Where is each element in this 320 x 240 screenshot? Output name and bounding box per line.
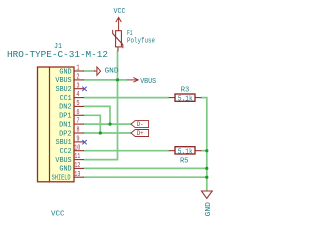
svg-text:11: 11	[74, 153, 81, 161]
svg-text:1: 1	[76, 65, 80, 73]
svg-text:R3: R3	[181, 86, 190, 94]
svg-text:4: 4	[76, 91, 80, 99]
svg-text:CC1: CC1	[60, 95, 73, 103]
svg-text:2: 2	[76, 74, 79, 82]
svg-text:SBU2: SBU2	[56, 86, 72, 94]
svg-text:DP2: DP2	[59, 130, 72, 138]
svg-text:GND: GND	[59, 68, 72, 76]
svg-text:VBUS: VBUS	[140, 78, 157, 86]
svg-text:VCC: VCC	[114, 8, 127, 16]
svg-text:3: 3	[76, 82, 79, 90]
svg-text:10: 10	[74, 144, 80, 152]
svg-text:D-: D-	[137, 121, 144, 128]
svg-text:GND: GND	[105, 68, 120, 76]
svg-text:GND: GND	[59, 166, 72, 174]
svg-text:CC2: CC2	[60, 148, 72, 156]
svg-text:9: 9	[76, 136, 79, 144]
svg-text:7: 7	[76, 118, 79, 126]
svg-text:R5: R5	[180, 157, 189, 165]
svg-text:HRO-TYPE-C-31-M-12: HRO-TYPE-C-31-M-12	[7, 50, 108, 60]
svg-text:DN2: DN2	[59, 104, 72, 112]
svg-text:SBU1: SBU1	[56, 139, 73, 147]
svg-text:13: 13	[74, 171, 80, 179]
svg-text:12: 12	[74, 162, 80, 170]
svg-text:8: 8	[76, 127, 79, 135]
svg-text:5.1k: 5.1k	[178, 148, 193, 156]
svg-text:VBUS: VBUS	[55, 157, 72, 165]
svg-text:VCC: VCC	[51, 210, 65, 218]
svg-text:D+: D+	[137, 130, 144, 137]
svg-text:DN1: DN1	[59, 121, 72, 129]
svg-text:5: 5	[76, 100, 79, 108]
svg-text:VBUS: VBUS	[55, 77, 72, 85]
svg-text:SHIELD: SHIELD	[52, 175, 71, 183]
svg-text:5.1k: 5.1k	[178, 96, 193, 104]
svg-text:GND: GND	[205, 201, 213, 216]
svg-text:Polyfuse: Polyfuse	[127, 38, 155, 46]
svg-text:6: 6	[76, 109, 79, 117]
svg-text:DP1: DP1	[59, 113, 72, 121]
